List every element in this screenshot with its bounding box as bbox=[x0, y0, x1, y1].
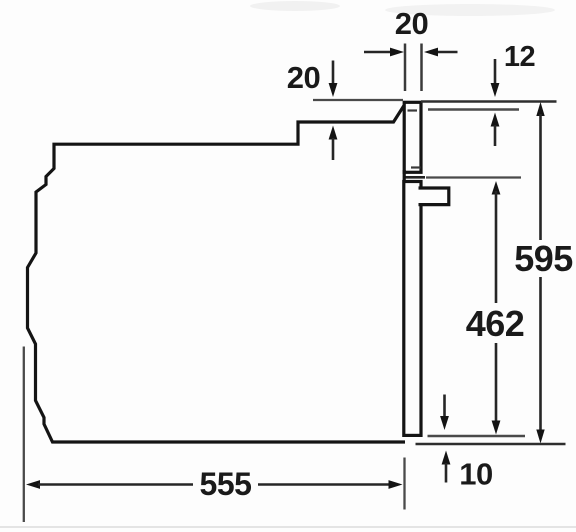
dim 555: right segment and arrow bbox=[258, 483, 390, 486]
svg-text:462: 462 bbox=[466, 303, 525, 344]
dim 10: down arrow bbox=[443, 395, 446, 419]
oven door (front strip lower section) bbox=[404, 182, 421, 436]
12 lower reference line bbox=[428, 108, 519, 110]
dim 595: lower line and arrow bbox=[539, 277, 542, 431]
dim 20 left: extension line bbox=[313, 99, 403, 101]
frame cap inner line bbox=[408, 109, 418, 111]
door top reference line (462 upper ref) bbox=[404, 176, 425, 179]
462/10 reference line (door bottom level) bbox=[428, 435, 526, 437]
dim 10: up arrow bbox=[442, 451, 451, 465]
front frame left wall bridge at slot bbox=[403, 170, 406, 183]
front frame upper section bbox=[404, 102, 421, 172]
dim 20 left: up arrow bbox=[329, 126, 338, 140]
dim 12: down arrow bbox=[494, 59, 497, 84]
dim 20 top: right extension line bbox=[420, 44, 423, 92]
dim 20 top: left arrow bbox=[364, 51, 392, 54]
dim 12: up arrow bbox=[491, 113, 500, 127]
dim 462: upper arrow and line bbox=[492, 181, 501, 195]
svg-text:20: 20 bbox=[395, 6, 428, 41]
scan artifact bottom line bbox=[0, 526, 576, 528]
dim 20 top: left extension line bbox=[404, 44, 407, 92]
dim 20 top: right arrow bbox=[436, 51, 458, 54]
dim 20 left: down arrow bbox=[332, 61, 335, 86]
svg-text:595: 595 bbox=[514, 238, 573, 279]
dim 555: left arrow bbox=[26, 480, 40, 489]
frame lip step line bbox=[411, 166, 421, 168]
top reference line (595 upper ref) bbox=[421, 100, 557, 103]
scan smudge top bbox=[250, 1, 340, 11]
dim 595: upper line and arrow bbox=[536, 102, 544, 116]
dim 555: left extension line bbox=[23, 347, 25, 523]
handle knockout bbox=[418, 190, 423, 202]
svg-text:10: 10 bbox=[459, 457, 492, 492]
door handle bbox=[419, 188, 449, 205]
dim 555: right extension line bbox=[403, 458, 405, 510]
bottom outer reference line (595/10 ref) bbox=[416, 443, 566, 446]
oven body outline bbox=[28, 106, 406, 443]
dim 462: lower line and arrow bbox=[495, 343, 498, 422]
svg-text:20: 20 bbox=[287, 60, 320, 95]
svg-text:555: 555 bbox=[200, 466, 252, 502]
svg-text:12: 12 bbox=[504, 41, 535, 73]
